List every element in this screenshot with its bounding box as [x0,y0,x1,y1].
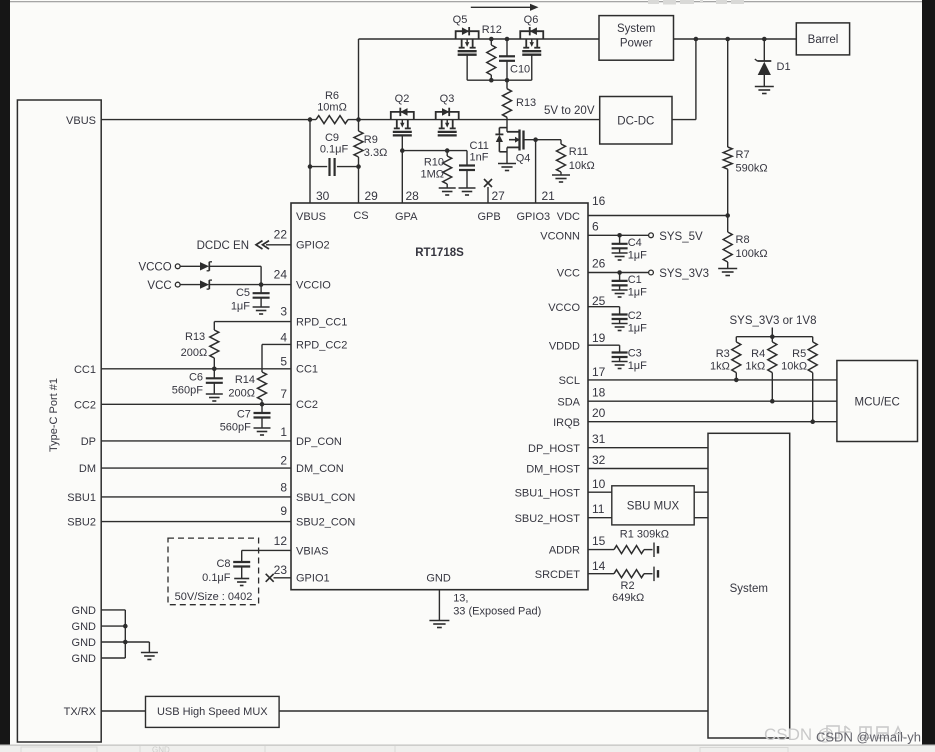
wire Q6 source leg [531,55,533,80]
DC-DC box [600,97,672,145]
svg-text:20: 20 [592,406,606,420]
wire R9 leg / pin29 [358,120,360,131]
svg-text:VCCO: VCCO [548,302,580,314]
resistor R10 [446,151,448,156]
svg-text:30: 30 [316,189,330,203]
USB High Speed MUX box [146,696,280,727]
wire SBU MUX out1 [694,491,708,493]
wire gate rail [402,150,467,152]
svg-text:R9: R9 [364,134,378,146]
node R7 top [725,37,730,42]
wire VCC pin26 [588,272,649,274]
terminator R2 [653,567,655,582]
svg-text:ADDR: ADDR [549,545,580,557]
svg-text:24: 24 [274,267,288,281]
svg-text:System: System [730,583,768,595]
svg-text:SYS_3V3 or 1V8: SYS_3V3 or 1V8 [730,315,817,327]
wire Q4 gate [524,139,562,141]
svg-text:DP_HOST: DP_HOST [528,443,580,455]
wire GND to earth [125,641,149,643]
wire DP [101,440,291,442]
arrow DCDC EN [256,241,263,249]
svg-text:DP_CON: DP_CON [296,436,342,448]
svg-text:VBIAS: VBIAS [296,545,328,557]
svg-text:Power: Power [620,38,653,50]
svg-text:19: 19 [592,331,606,345]
svg-text:C7: C7 [237,409,251,421]
svg-text:CC2: CC2 [296,399,318,411]
ground R8 [718,268,737,270]
svg-text:SYS_3V3: SYS_3V3 [659,268,709,280]
wire VDC pin16 [588,215,728,217]
svg-text:GPIO3: GPIO3 [517,211,551,223]
svg-text:R2: R2 [621,580,635,592]
wire GND stubs [101,609,125,611]
node D1 top [762,37,767,42]
wire bottom tie [467,79,532,81]
wire C9 left leg [309,120,311,203]
svg-text:VCCIO: VCCIO [296,280,331,292]
ground R10 [439,187,456,189]
svg-text:R7: R7 [736,149,750,161]
wire CC2 [101,403,291,405]
svg-text:DM_CON: DM_CON [296,463,344,475]
svg-text:GND: GND [72,653,97,665]
resistor R9 [354,131,363,157]
node GND bus b [123,640,128,645]
svg-text:560pF: 560pF [172,385,203,397]
svg-text:VCC: VCC [557,268,580,280]
diode VCC schottky [200,280,209,288]
resistor R4 [771,337,773,342]
resistor R6 [316,112,348,127]
svg-text:2: 2 [280,453,287,467]
svg-text:C1: C1 [628,274,642,286]
svg-text:CC1: CC1 [296,364,318,376]
terminator R1 [653,543,655,558]
node VDC-R8 [725,213,730,218]
svg-text:200Ω: 200Ω [228,388,255,400]
right black border bar [922,0,935,746]
svg-text:C9: C9 [325,132,339,144]
node C9 right [356,164,361,169]
wire pin21 riser [535,140,537,203]
resistor R7 [727,39,729,147]
ground C4 [612,252,628,254]
wire mux to system [279,710,708,712]
top hairline [10,1,922,3]
svg-text:14: 14 [592,559,606,573]
svg-text:CSDN @wmail-yh: CSDN @wmail-yh [816,730,921,745]
node R12 bottom [489,78,494,83]
svg-text:SBU2_CON: SBU2_CON [296,517,355,529]
svg-text:5V to 20V: 5V to 20V [544,105,595,117]
svg-text:10kΩ: 10kΩ [781,361,807,373]
wire VCONN pin6 [588,234,649,236]
svg-text:1: 1 [280,425,287,439]
wire SCL [588,379,837,381]
svg-text:VDDD: VDDD [549,340,580,352]
capacitor C8 [233,561,250,563]
svg-text:1kΩ: 1kΩ [710,361,730,373]
ground C11 [459,187,476,189]
ground C1 [612,289,628,291]
no-connect X GPIO1 [266,574,274,582]
capacitor C7 [261,404,263,413]
svg-text:R14: R14 [235,374,255,386]
current direction arrow [471,6,531,8]
svg-text:4: 4 [280,330,287,344]
svg-text:DM_HOST: DM_HOST [526,464,580,476]
capacitor C5 [260,285,262,294]
svg-text:C6: C6 [189,372,203,384]
transistor Q6 [520,31,543,39]
svg-text:649kΩ: 649kΩ [612,592,644,604]
wire DM_HOST [588,468,708,470]
svg-text:SBU2_HOST: SBU2_HOST [515,513,581,525]
wire SRCDET pin14 [588,573,614,575]
node C4 junction [617,233,622,238]
wire SBU MUX out2 [694,517,708,519]
node C10 top [505,37,510,42]
ground C5 [253,306,270,308]
node DCDC output [694,37,699,42]
wire ADDR pin15 [588,549,614,551]
ground D1 [755,86,774,88]
svg-text:10mΩ: 10mΩ [317,102,347,114]
svg-text:27: 27 [492,189,506,203]
svg-text:SYS_5V: SYS_5V [659,231,703,243]
svg-text:System: System [617,23,655,35]
svg-text:1MΩ: 1MΩ [420,168,444,180]
Barrel box [796,23,849,55]
wire DP_HOST [588,447,708,449]
node Q4 gate [533,137,538,142]
node R12 top [489,37,494,42]
node R4-SDA [770,399,775,404]
wire SBU2_HOST [588,517,612,519]
svg-text:DCDC EN: DCDC EN [197,240,249,252]
svg-text:21: 21 [542,189,556,203]
svg-text:32: 32 [592,453,606,467]
svg-text:1μF: 1μF [628,323,647,335]
svg-text:3: 3 [280,305,287,319]
wire TXRX to mux [101,710,146,712]
wire riser to top rail [358,39,360,120]
svg-text:R3: R3 [716,348,730,360]
svg-text:RPD_CC2: RPD_CC2 [296,340,347,352]
svg-text:10kΩ: 10kΩ [569,160,595,172]
wire VDDD pin19 [588,344,620,346]
svg-text:Q4: Q4 [516,153,531,165]
svg-text:8: 8 [280,480,287,494]
resistor R5 [812,337,814,342]
wire Q2 gate to pin28 [401,135,403,203]
svg-text:GPA: GPA [395,211,418,223]
svg-text:SBU1: SBU1 [67,492,96,504]
svg-text:R1 309kΩ: R1 309kΩ [620,529,669,541]
capacitor C2 [612,313,628,315]
MCU/EC box [837,361,918,442]
wire SBU1 [101,496,291,498]
svg-text:R5: R5 [792,348,806,360]
left black border bar [0,0,10,746]
wire SBU2 [101,521,291,523]
resistor R12 [490,39,492,45]
node VCC terminal [175,282,180,287]
svg-text:MCU/EC: MCU/EC [855,397,900,409]
svg-text:16: 16 [592,194,606,208]
svg-text:R6: R6 [325,90,339,102]
bottom gray band [0,745,935,752]
svg-text:SBU2: SBU2 [67,517,96,529]
wire Q5 source leg [466,55,468,80]
ground C3 [612,361,628,363]
svg-text:1μF: 1μF [628,360,647,372]
node C1 junction [617,270,622,275]
svg-text:GPB: GPB [478,211,501,223]
svg-text:SBU1_CON: SBU1_CON [296,492,355,504]
wire top rail [359,38,600,40]
wire VBUS rail [101,119,600,121]
svg-text:18: 18 [592,385,606,399]
svg-text:11: 11 [592,502,605,516]
svg-text:0.1μF: 0.1μF [320,144,349,156]
ground connector shell [141,652,158,654]
svg-text:Type-C Port #1: Type-C Port #1 [48,378,60,452]
Type-C Port #1 connector box [17,100,101,742]
wire VCCO pin25 [588,306,620,308]
svg-text:25: 25 [592,294,606,308]
svg-text:29: 29 [365,189,379,203]
svg-text:R13: R13 [516,97,536,109]
svg-text:28: 28 [406,189,420,203]
node CC2-R14 [260,402,265,407]
svg-text:560pF: 560pF [220,422,251,434]
wire VBIAS pin12 [242,549,291,551]
svg-text:VDC: VDC [557,211,580,223]
svg-text:10: 10 [592,477,606,491]
svg-text:Barrel: Barrel [808,34,839,46]
resistor R3 [735,337,737,342]
svg-text:GND: GND [72,605,97,617]
ground C8 [234,578,249,580]
svg-text:DP: DP [81,436,96,448]
svg-text:22: 22 [274,227,288,241]
svg-text:VCCO: VCCO [138,262,171,274]
svg-text:R4: R4 [751,348,765,360]
node R6-R9 junction [356,117,361,122]
svg-text:DC-DC: DC-DC [617,116,654,128]
resistor R2 [614,570,644,578]
svg-text:1μF: 1μF [628,287,647,299]
wire VCCO row [180,265,200,267]
svg-text:C5: C5 [236,287,250,299]
System Power box [599,16,674,61]
svg-text:C3: C3 [628,348,642,360]
capacitor C3 [612,351,628,353]
svg-text:23: 23 [274,563,288,577]
System box [708,433,790,738]
node VCONN terminal [649,233,654,238]
wire IRQB [588,421,837,423]
svg-text:GND: GND [152,746,170,752]
transistor Q3 [436,112,459,120]
node VCC terminal [649,270,654,275]
svg-text:VCONN: VCONN [540,231,580,243]
svg-text:R8: R8 [736,234,750,246]
wire GND pin13 [438,590,440,620]
wire SDA [588,400,837,402]
svg-text:200Ω: 200Ω [181,347,208,359]
svg-text:SBU1_HOST: SBU1_HOST [515,487,581,499]
svg-text:C10: C10 [510,64,530,76]
svg-text:33 (Exposed Pad): 33 (Exposed Pad) [453,606,541,618]
svg-text:31: 31 [592,432,606,446]
capacitor C11 [466,151,468,166]
node C10 bottom [505,78,510,83]
svg-text:R12: R12 [482,24,502,36]
wire VCC row [180,284,200,286]
capacitor C10 [506,39,508,56]
svg-text:VBUS: VBUS [66,115,96,127]
svg-text:1μF: 1μF [231,301,250,313]
svg-text:VCC: VCC [147,280,171,292]
node CC1-R13 [212,367,217,372]
node Q3 gate [445,148,450,153]
resistor R11 [560,140,562,144]
transistor Q2 [391,112,414,120]
ground C2 [612,323,628,325]
svg-text:TX/RX: TX/RX [64,706,97,718]
wire SystemPower to Barrel [674,38,797,40]
svg-text:Q2: Q2 [395,93,410,105]
ground C7 [254,427,271,429]
no-connect X GPB [484,179,492,187]
resistor R1 [614,546,644,554]
svg-text:C8: C8 [216,558,230,570]
svg-text:GND: GND [72,621,97,633]
svg-text:1nF: 1nF [470,152,489,164]
svg-text:12: 12 [274,534,288,548]
svg-text:590kΩ: 590kΩ [736,163,768,175]
svg-text:SDA: SDA [557,396,580,408]
resistor R13 cc [210,330,219,358]
svg-text:USB High Speed MUX: USB High Speed MUX [157,706,268,718]
svg-text:13,: 13, [453,593,468,605]
svg-text:SRCDET: SRCDET [535,569,581,581]
svg-text:IRQB: IRQB [553,417,580,429]
wire SBU1_HOST [588,491,612,493]
svg-text:DM: DM [79,463,96,475]
svg-text:7: 7 [280,387,287,401]
C8 spec dashed box [168,538,259,605]
svg-text:GND: GND [72,637,97,649]
svg-text:SCL: SCL [559,375,580,387]
svg-text:D1: D1 [777,61,791,73]
svg-text:1kΩ: 1kΩ [745,361,765,373]
transistor Q4 [506,120,508,132]
ground C6 [206,393,223,395]
ground R11 [552,174,570,176]
capacitor C4 [619,235,621,244]
wire DM [101,467,291,469]
svg-text:RT1718S: RT1718S [415,247,464,259]
svg-text:C2: C2 [628,310,642,322]
node GND bus a [123,624,128,629]
top watermark remnant [648,0,744,5]
wire CC1 [101,368,291,370]
node C5 junction [259,282,264,287]
node VCCO terminal [175,264,180,269]
capacitor C6 [213,369,215,379]
ground exposed pad [429,620,449,622]
node Q2 gate [400,148,405,153]
svg-text:5: 5 [280,355,287,369]
svg-text:15: 15 [592,534,606,548]
svg-text:GPIO1: GPIO1 [296,573,330,585]
capacitor C1 [619,273,621,281]
wire pin3 RPD_CC1 [214,321,291,323]
diode VCCO schottky [200,262,209,270]
svg-text:9: 9 [280,504,287,518]
svg-text:Q6: Q6 [524,14,539,26]
resistor R14 [258,372,267,400]
svg-text:R11: R11 [569,146,588,158]
svg-text:6: 6 [592,220,599,234]
node R5-IRQB [810,419,815,424]
diode D1 [763,39,765,61]
svg-text:Q5: Q5 [453,14,468,26]
svg-text:17: 17 [592,365,606,379]
SBU MUX box [612,486,694,525]
node R3-SCL [734,378,739,383]
svg-text:RPD_CC1: RPD_CC1 [296,317,347,329]
svg-text:GPIO2: GPIO2 [296,240,330,252]
svg-text:50V/Size : 0402: 50V/Size : 0402 [175,591,253,603]
svg-text:SBU MUX: SBU MUX [627,501,680,513]
wire pullup rail [771,328,773,337]
svg-text:GND: GND [426,573,451,585]
ground Q4 [498,163,516,165]
capacitor C9 [327,158,337,177]
svg-text:100kΩ: 100kΩ [736,248,768,260]
svg-text:VBUS: VBUS [296,211,326,223]
resistor R13 power [506,80,508,89]
svg-text:CC2: CC2 [74,399,96,411]
op-amp U1 RT1718S body [291,203,588,590]
wire DCDC output [672,119,696,121]
svg-text:1μF: 1μF [628,250,647,262]
wire DCDC EN pin22 [266,244,291,246]
svg-text:C4: C4 [628,237,642,249]
svg-text:Q3: Q3 [440,93,455,105]
svg-text:0.1μF: 0.1μF [202,572,231,584]
svg-text:CC1: CC1 [74,364,96,376]
node VBUS-R6 junction [308,117,313,122]
resistor R8 [727,216,729,233]
node pullup rail [770,334,775,339]
svg-text:R13: R13 [185,331,205,343]
wire pin4 RPD_CC2 [262,343,291,345]
svg-text:C11: C11 [470,140,489,152]
svg-text:3.3Ω: 3.3Ω [364,147,388,159]
node C9 left [308,164,313,169]
svg-text:26: 26 [592,256,606,270]
svg-text:CS: CS [353,210,368,222]
svg-text:R10: R10 [424,157,444,169]
transistor Q5 [456,31,479,39]
